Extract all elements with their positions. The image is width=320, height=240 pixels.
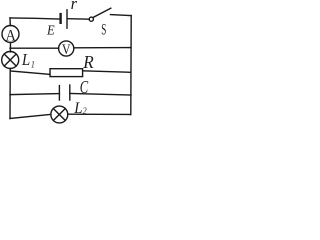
svg-text:V: V: [62, 41, 71, 58]
svg-text:E: E: [46, 22, 55, 38]
switch S pivot: [89, 17, 93, 21]
lamp L1: [2, 52, 19, 69]
wire left vertical stub to ammeter: [9, 18, 11, 26]
wire bottom-right: [68, 113, 131, 115]
wire top-left horizontal: [10, 18, 59, 19]
voltmeter V: [59, 41, 74, 56]
svg-text:L: L: [73, 99, 82, 117]
lamp L2: [51, 106, 68, 123]
switch S blade: [93, 8, 111, 17]
voltmeter wire right: [74, 47, 131, 49]
resistor wire right: [83, 71, 130, 73]
battery long plate: [66, 10, 68, 28]
wire bottom-left sloping: [10, 114, 51, 118]
svg-text:C: C: [80, 78, 89, 98]
capacitor wire left: [10, 94, 59, 95]
svg-text:2: 2: [83, 105, 88, 116]
resistor R box: [50, 69, 83, 77]
wire left vertical lower: [9, 69, 11, 119]
svg-text:r: r: [71, 0, 78, 13]
wire battery to switch: [68, 18, 90, 21]
wire between ammeter and lamp L1: [9, 43, 11, 52]
ammeter A: [2, 26, 19, 43]
wire top-right from switch: [111, 15, 132, 16]
svg-text:R: R: [82, 51, 94, 72]
capacitor C right plate: [69, 85, 71, 100]
svg-text:1: 1: [31, 58, 35, 69]
svg-text:A: A: [6, 27, 16, 45]
battery short plate: [59, 13, 61, 24]
svg-text:L: L: [21, 51, 30, 69]
wire right vertical: [130, 16, 132, 115]
capacitor C left plate: [58, 86, 60, 100]
voltmeter wire left: [10, 47, 59, 49]
resistor wire left: [10, 71, 50, 74]
svg-text:S: S: [101, 21, 106, 38]
capacitor wire right: [70, 93, 131, 95]
